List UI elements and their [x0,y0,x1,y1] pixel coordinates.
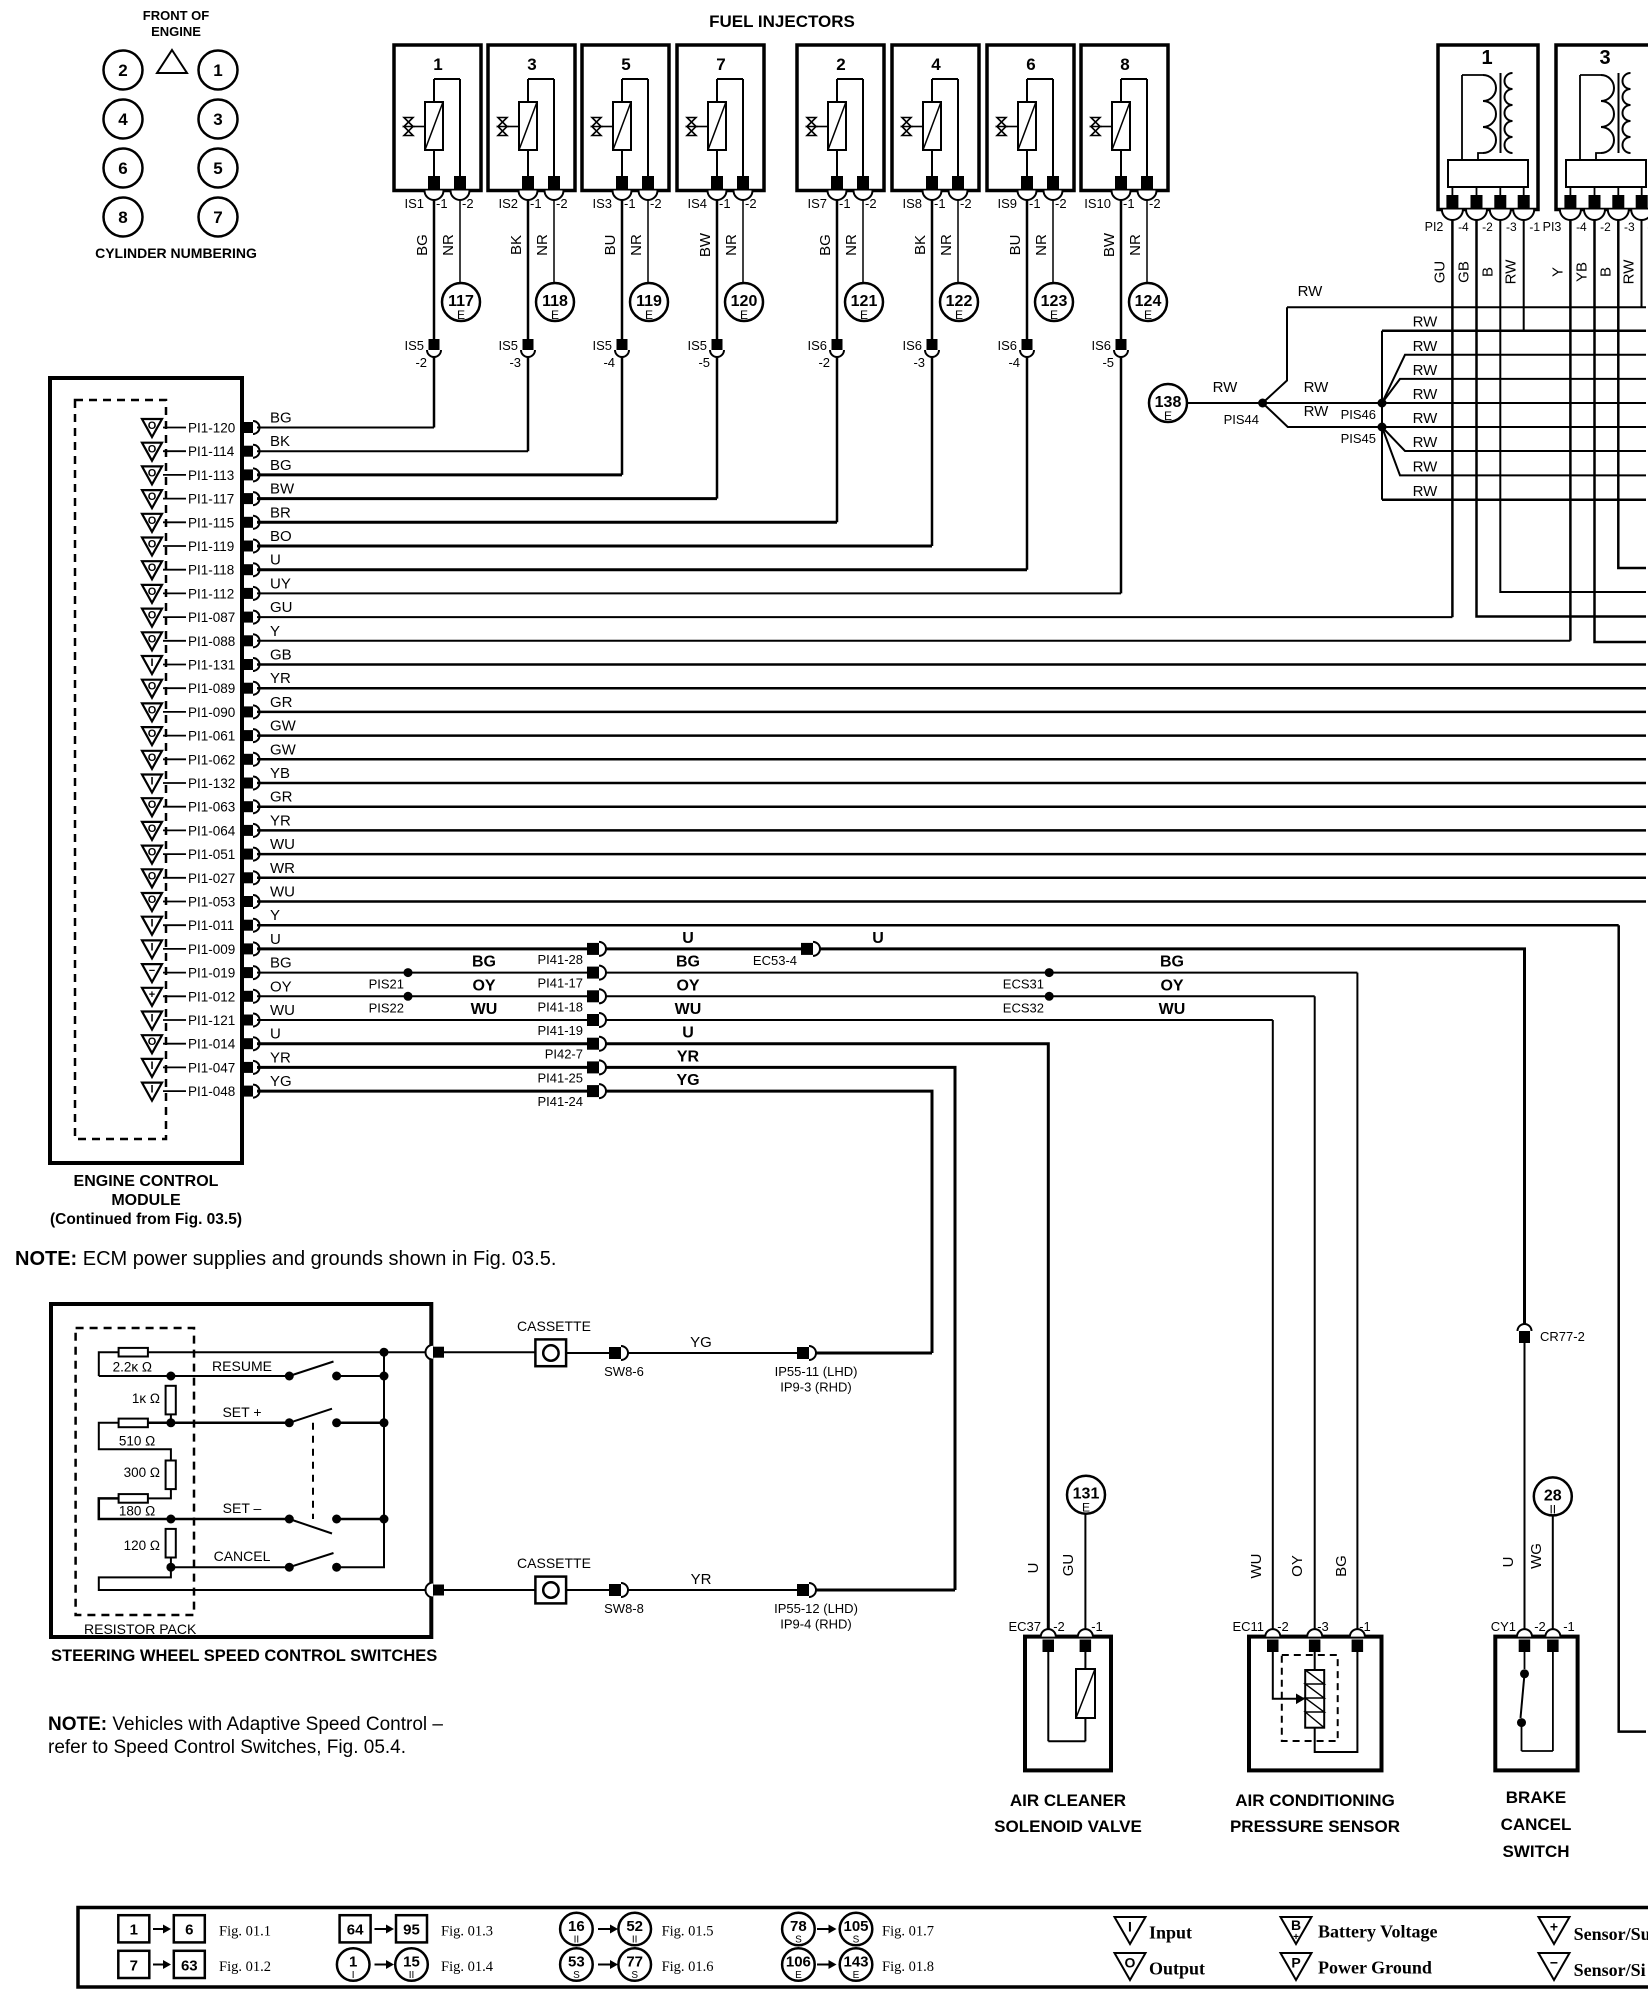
pin EC11-3 [1307,1629,1322,1636]
svg-text:ENGINE: ENGINE [151,24,201,39]
wire BR ECM PI1-115 to injector splice [257,521,837,524]
wire WU ECM PI1-053 to page edge [257,900,1646,903]
wire YR ECM PI1-047 through PI41-25 to cassette SW8-8 branch [257,1066,587,1069]
ground circle 131 E [1067,1476,1105,1514]
svg-text:-1: -1 [624,196,636,211]
svg-text:16: 16 [568,1918,585,1935]
svg-text:Fig. 01.7: Fig. 01.7 [882,1924,934,1940]
svg-text:3: 3 [527,55,536,74]
wire NR from injector 5 pin -2 to ground 119 [647,200,649,284]
injector solenoid coil [613,102,631,150]
wire RW PIS44 to PIS45 [1263,403,1382,427]
box connector to cassette SW8-6 [426,1345,433,1360]
ECM pin PI1-019 (sensor −, BG) [142,964,260,982]
svg-text:FUEL INJECTORS: FUEL INJECTORS [709,12,855,31]
svg-text:RW: RW [1413,314,1439,331]
ECM pin PI1-011 (input, Y) [142,917,260,935]
svg-text:PI1-112: PI1-112 [188,586,234,601]
legend circle 143 E [840,1948,873,1981]
svg-text:RW: RW [1621,259,1638,285]
svg-text:YR: YR [270,670,291,687]
svg-text:PI1-088: PI1-088 [188,634,235,649]
legend circle 15 II [395,1948,428,1981]
splice connector IS5-4 [617,339,628,350]
svg-text:2.2κ Ω: 2.2κ Ω [113,1360,152,1375]
resistor 510 ohm [119,1419,148,1428]
svg-text:Fig. 01.5: Fig. 01.5 [662,1924,714,1940]
svg-text:PI1-019: PI1-019 [188,966,235,981]
svg-text:Sensor/Si: Sensor/Si [1574,1960,1646,1980]
splice ECS32 [1045,992,1054,1001]
coil secondary winding [1505,73,1513,153]
svg-text:CASSETTE: CASSETTE [517,1318,591,1334]
svg-text:WG: WG [1528,1543,1545,1569]
svg-text:NR: NR [534,234,551,256]
wire BG ECM PI1-113 to injector splice [257,473,622,476]
inline connector IP55-11 [797,1347,809,1359]
svg-text:I: I [150,776,153,788]
svg-text:YR: YR [677,1048,700,1065]
svg-text:-2: -2 [1149,196,1161,211]
svg-text:CANCEL: CANCEL [1501,1815,1572,1834]
svg-text:II: II [409,1970,415,1981]
svg-text:3: 3 [1599,47,1610,69]
junction bus/SET+ [380,1418,389,1427]
RW bus row 6 continuation [1382,426,1646,428]
splice connector IS6-5 [1116,339,1127,350]
injector valve symbol [997,118,1006,136]
wire BG drop to A/C pressure sensor EC11-1 [1356,973,1358,1629]
svg-text:O: O [148,681,157,693]
injector solenoid coil [425,102,443,150]
ECM pin PI1-087 (output, GU) [142,609,260,627]
splice connector IS5-5 [712,339,723,350]
svg-text:-1: -1 [1529,220,1540,234]
ground circle 124 E [1129,283,1167,321]
wire BK ECM PI1-114 to injector splice [257,450,528,452]
svg-text:PIS21: PIS21 [369,977,404,992]
wire U CR77-2 to brake cancel switch [1524,1343,1526,1629]
svg-text:E: E [457,308,465,322]
coil primary winding [1579,75,1581,160]
legend symbol Sensor Supply [1539,1917,1570,1944]
svg-text:Battery Voltage: Battery Voltage [1318,1922,1437,1942]
svg-text:PI1-114: PI1-114 [188,444,235,459]
svg-text:PI1-113: PI1-113 [188,468,234,483]
svg-text:O: O [148,704,157,716]
svg-text:O: O [148,752,157,764]
svg-text:I: I [150,918,153,930]
svg-text:−: − [149,965,155,977]
legend box 95 [396,1915,427,1942]
svg-text:PI1-089: PI1-089 [188,681,235,696]
wire RESUME switch to bus [337,1375,384,1377]
ECM pin PI1-115 (output, BR) [142,514,260,532]
svg-text:WU: WU [1248,1554,1265,1579]
svg-text:RW: RW [1413,362,1439,379]
svg-text:YG: YG [676,1072,699,1089]
pin PI2-3 [1499,187,1501,196]
wire CANCEL switch to bus [337,1519,384,1567]
wire BG from IS6-2 down to ECM row [836,357,839,522]
svg-text:-4: -4 [1576,220,1587,234]
svg-text:BG: BG [270,955,292,972]
svg-text:BG: BG [817,234,834,256]
svg-text:PI1-012: PI1-012 [188,989,235,1004]
AIR CONDITIONING PRESSURE SENSOR box [1249,1629,1382,1770]
svg-text:YR: YR [270,1049,291,1066]
fuel injector 5 (IS3) [582,45,669,211]
svg-text:S: S [573,1970,580,1981]
wire WG 28 to CY1-1 [1552,1515,1554,1629]
svg-text:IS1: IS1 [404,196,424,211]
svg-text:PI1-009: PI1-009 [188,942,235,957]
svg-text:PI1-119: PI1-119 [188,539,234,554]
wire OY ECM PI1-012 through PIS22, PI41-18, ECS32 to A/C sensor [257,995,587,997]
pin IS1-1 [428,176,440,189]
sensor dashed boundary [1282,1655,1338,1741]
ECM pin PI1-132 (input, YB) [142,775,260,793]
svg-text:PI1-090: PI1-090 [188,705,235,720]
wire U ECM PI1-009 to connector PI41-28 [257,947,587,950]
cylinder numbering legend [95,8,257,261]
svg-text:-3: -3 [1317,1619,1329,1634]
svg-text:-2: -2 [462,196,474,211]
pin PI2-4 [1451,187,1453,196]
svg-text:SET +: SET + [222,1404,261,1420]
svg-text:U: U [682,1025,694,1042]
svg-text:Power Ground: Power Ground [1318,1958,1432,1978]
wire NR from injector 3 pin -2 to ground 118 [553,200,555,284]
svg-text:E: E [740,308,748,322]
RW bus row 9 [1382,499,1646,502]
RW bus row 4 [1382,379,1646,403]
ECM inner dashed boundary [75,400,166,1139]
svg-text:BK: BK [912,235,929,255]
svg-text:IP55-12 (LHD): IP55-12 (LHD) [774,1601,858,1616]
svg-text:O: O [148,491,157,503]
wire B PI2-3 down and right to page edge [1500,220,1646,592]
svg-text:-2: -2 [1600,220,1611,234]
coil connector body [1566,160,1646,187]
svg-text:U: U [270,552,281,569]
ECM pin PI1-053 (output, WU) [142,893,260,911]
wire U EC53-4 to brake cancel switch drop [820,949,1525,1324]
svg-text:Fig. 01.3: Fig. 01.3 [441,1924,493,1940]
cylinder 1 circle [199,51,238,90]
svg-text:YR: YR [691,1571,712,1588]
wire WR ECM PI1-027 to page edge [257,877,1646,880]
svg-text:CY1: CY1 [1491,1619,1516,1634]
svg-text:RW: RW [1413,483,1439,500]
svg-text:PI1-121: PI1-121 [188,1013,235,1028]
junction 120ohm/CANCEL [166,1563,175,1572]
svg-text:15: 15 [403,1954,420,1971]
RW bus row 7 [1382,427,1646,451]
svg-text:BW: BW [697,232,714,257]
wire BU from injector 5 pin -1 to splice IS5-4 [621,200,624,339]
svg-text:U: U [270,1026,281,1043]
wire YG SW8-6 to IP55-11 [628,1352,797,1354]
CANCEL row wire [171,1566,289,1568]
svg-text:IS7: IS7 [807,196,827,211]
splice connector IS6-3 [927,339,938,350]
svg-text:-2: -2 [865,196,877,211]
svg-text:6: 6 [1026,55,1035,74]
svg-text:SW8-8: SW8-8 [604,1601,644,1616]
svg-text:AIR CONDITIONING: AIR CONDITIONING [1235,1791,1395,1810]
injector solenoid coil [708,102,726,150]
svg-text:-2: -2 [415,355,427,370]
svg-text:-1: -1 [1563,1619,1575,1634]
svg-text:O: O [148,539,157,551]
svg-text:-2: -2 [818,355,830,370]
ECM pin PI1-088 (output, Y) [142,632,260,650]
ECM pin PI1-064 (output, YR) [142,822,260,840]
injector valve symbol [404,118,413,136]
svg-text:-2: -2 [745,196,757,211]
svg-text:53: 53 [568,1954,585,1971]
svg-text:I: I [150,657,153,669]
ECM pin PI1-027 (output, WR) [142,869,260,887]
AIR CLEANER SOLENOID VALVE box [1025,1629,1111,1770]
wire BO ECM PI1-119 to injector splice [257,545,932,548]
svg-text:BG: BG [270,457,292,474]
svg-text:GR: GR [270,694,293,711]
legend box 63 [174,1951,205,1978]
svg-text:B: B [1597,267,1614,277]
svg-text:GW: GW [270,718,297,735]
svg-text:CASSETTE: CASSETTE [517,1555,591,1571]
wire BW from IS6-5 down to ECM row [1120,357,1123,593]
ECM pin PI1-112 (output, UY) [142,585,260,603]
wire YR ECM PI1-089 to page edge [257,687,1646,690]
legend circle 52 II [618,1913,651,1946]
ground circle 122 E [940,283,978,321]
svg-text:PI1-062: PI1-062 [188,752,235,767]
fuel injector 2 (IS7) [797,45,884,211]
wire NR from injector 8 pin -2 to ground 124 [1146,200,1148,284]
legend circle 77 S [618,1948,651,1981]
wire GW ECM PI1-062 to page edge [257,758,1646,761]
svg-text:NOTE: Vehicles with Adaptive S: NOTE: Vehicles with Adaptive Speed Contr… [48,1714,443,1735]
wire WU pin to wiper arrow [1273,1652,1296,1699]
svg-text:Output: Output [1149,1959,1205,1979]
wire 120 ohm to CANCEL row [170,1558,172,1568]
legend symbol Power Ground [1281,1953,1312,1980]
svg-text:8: 8 [1120,55,1129,74]
svg-text:O: O [1125,1955,1136,1971]
svg-text:NR: NR [1033,234,1050,256]
junction bus/SET- [380,1515,389,1524]
wire GW ECM PI1-061 to page edge [257,734,1646,737]
splice PIS44 [1258,399,1267,408]
svg-text:O: O [148,562,157,574]
fuel injector 7 (IS4) [677,45,764,211]
inline connector IP55-12 [797,1584,809,1596]
splice connector IS6-2 [832,339,843,350]
svg-text:PI1-053: PI1-053 [188,895,235,910]
svg-text:-1: -1 [1359,1619,1371,1634]
pin IS9-2 [1047,176,1059,189]
svg-text:GU: GU [1431,261,1448,284]
svg-text:RW: RW [1413,458,1439,475]
cylinder 8 circle [104,198,143,237]
switch contacts and blade [1524,1652,1526,1669]
svg-text:RW: RW [1298,283,1324,300]
svg-text:IS5: IS5 [592,338,612,353]
injector solenoid coil [828,102,846,150]
splice PIS45 [1378,423,1387,432]
inline connector PI41-28 [587,943,599,955]
svg-text:WU: WU [270,836,295,853]
legend bar [78,1908,1648,1988]
wire CASSETTE to SW8-8 [566,1589,609,1591]
wire Y ECM PI1-088 to coil PI3-4 [257,640,1570,642]
svg-text:B: B [1479,267,1496,277]
svg-text:CR77-2: CR77-2 [1540,1329,1585,1344]
legend circle 106 E [782,1948,815,1981]
coil primary winding [1461,75,1463,160]
svg-text:143: 143 [843,1954,868,1971]
svg-text:3: 3 [213,110,222,129]
svg-text:Input: Input [1149,1923,1192,1943]
cylinder 6 circle [104,149,143,188]
svg-text:STEERING WHEEL SPEED CONTROL S: STEERING WHEEL SPEED CONTROL SWITCHES [51,1647,437,1665]
wire YG ECM PI1-048 through PI41-24 to cassette SW8-6 branch [257,1090,587,1093]
svg-text:UY: UY [270,575,291,592]
SET+ row wire [148,1422,289,1425]
svg-text:-4: -4 [1458,220,1469,234]
ECM pin PI1-119 (output, BO) [142,538,260,556]
svg-text:RW: RW [1213,379,1239,396]
switch bus vertical [383,1352,385,1519]
inline connector CR77-2 [1518,1324,1532,1331]
svg-text:MODULE: MODULE [111,1192,181,1209]
wire BG from injector 2 pin -1 to splice IS6-2 [836,200,839,339]
svg-text:-1: -1 [1091,1619,1103,1634]
ECM pin PI1-113 (output, BG) [142,466,260,484]
coil core [1618,73,1620,153]
svg-text:1: 1 [1481,47,1492,69]
svg-text:4: 4 [931,55,941,74]
pin CY1-1 [1545,1629,1560,1636]
inline connector SW8-8 [609,1584,621,1596]
wire B PI3-3 down and right to page edge [1618,220,1646,568]
inline connector SW8-6 [609,1347,621,1359]
svg-text:BG: BG [270,410,292,427]
svg-text:WU: WU [270,884,295,901]
svg-text:II: II [632,1935,638,1946]
svg-text:PI41-24: PI41-24 [537,1094,583,1109]
ECM pin PI1-009 (input, U) [142,940,260,958]
ECM pin PI1-014 (output, U) [142,1035,260,1053]
ground circle 117 E [442,283,480,321]
cylinder 3 circle [199,100,238,139]
svg-text:52: 52 [626,1918,643,1935]
wire BW from IS5-5 down to ECM row [716,357,719,499]
cylinder 2 circle [104,51,143,90]
wire CASSETTE to SW8-6 [566,1352,609,1354]
inline connector PI41-18 [587,990,599,1002]
svg-text:1: 1 [433,55,442,74]
svg-text:E: E [853,1970,860,1981]
svg-text:7: 7 [130,1957,138,1974]
legend circle 53 S [560,1948,593,1981]
svg-text:-2: -2 [1277,1619,1289,1634]
svg-text:E: E [551,308,559,322]
pin EC37-2 [1041,1629,1056,1636]
svg-text:GB: GB [1456,261,1473,283]
svg-text:-2: -2 [650,196,662,211]
wire resistor pack top row to cassette connector [148,1351,426,1353]
pin IS2-2 [548,176,560,189]
fuel injector 8 (IS10) [1081,45,1168,211]
svg-text:NR: NR [628,234,645,256]
splice connector IS6-4 [1022,339,1033,350]
svg-text:1κ Ω: 1κ Ω [132,1391,160,1406]
svg-text:IS5: IS5 [498,338,518,353]
svg-text:GU: GU [1060,1554,1077,1577]
injector valve symbol [902,118,911,136]
injector solenoid coil [1112,102,1130,150]
pin CY1-2 [1517,1629,1532,1636]
svg-text:ECS31: ECS31 [1003,977,1044,992]
ground circle 120 E [725,283,763,321]
ENGINE CONTROL MODULE box [50,378,242,1163]
svg-text:-4: -4 [1008,355,1020,370]
RW bus row 1 [1287,306,1646,308]
svg-text:PI1-131: PI1-131 [188,658,235,673]
svg-text:-3: -3 [1624,220,1635,234]
svg-text:I: I [150,1084,153,1096]
svg-text:NR: NR [1127,234,1144,256]
wire GU ECM PI1-087 to coil PI2-4 [257,616,1452,618]
injector valve symbol [807,118,816,136]
pin IS8-2 [952,176,964,189]
svg-text:BK: BK [508,235,525,255]
wire RW PIS44 up to RW row 1 [1263,307,1287,403]
wire NR from injector 1 pin -2 to ground 117 [459,200,461,284]
wire NR from injector 6 pin -2 to ground 123 [1052,200,1054,284]
svg-text:O: O [148,586,157,598]
svg-text:−: − [1550,1955,1558,1971]
legend circle 1 I [337,1948,370,1981]
legend symbol Input [1115,1917,1146,1944]
svg-text:78: 78 [790,1918,807,1935]
svg-text:GU: GU [270,599,293,616]
svg-text:RESISTOR PACK: RESISTOR PACK [84,1621,197,1637]
svg-text:300 Ω: 300 Ω [124,1465,160,1480]
wire BG from injector 1 pin -1 to splice IS5-2 [433,200,436,339]
svg-text:BG: BG [1160,954,1184,971]
svg-text:Sensor/Su: Sensor/Su [1574,1924,1648,1944]
legend circle 105 S [840,1913,873,1946]
wire Y continuation to page edge [1619,925,1646,1731]
svg-text:PIS44: PIS44 [1224,412,1259,427]
wire GR ECM PI1-090 to page edge [257,711,1646,714]
svg-text:O: O [148,467,157,479]
svg-text:U: U [872,930,884,947]
splice ECS31 [1045,968,1054,977]
svg-text:180 Ω: 180 Ω [119,1504,155,1519]
svg-text:O: O [148,633,157,645]
svg-text:-5: -5 [698,355,710,370]
RESUME row wire [99,1375,289,1377]
wire NR from injector 4 pin -2 to ground 122 [957,200,959,284]
svg-text:IS8: IS8 [902,196,922,211]
fuel injector 3 (IS2) [488,45,575,211]
